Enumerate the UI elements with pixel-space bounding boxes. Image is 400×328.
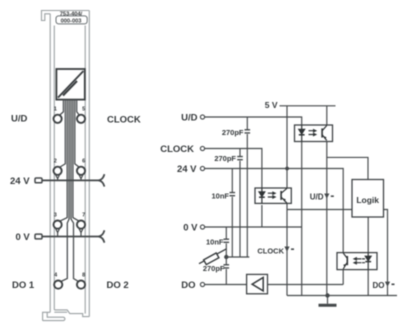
svg-text:5: 5 — [82, 107, 85, 113]
svg-text:Logik: Logik — [356, 195, 379, 205]
svg-text:0 V: 0 V — [16, 232, 31, 243]
svg-text:000-003: 000-003 — [61, 19, 82, 25]
svg-text:U/D: U/D — [11, 114, 28, 125]
svg-text:1: 1 — [54, 107, 57, 113]
svg-text:6: 6 — [82, 159, 85, 165]
svg-text:CLOCK: CLOCK — [107, 115, 141, 126]
svg-text:5 V: 5 V — [265, 100, 278, 110]
svg-text:270pF: 270pF — [222, 128, 244, 137]
svg-text:CLOCK: CLOCK — [257, 247, 284, 256]
svg-text:24 V: 24 V — [10, 176, 30, 187]
svg-text:10nF: 10nF — [211, 192, 229, 201]
svg-text:U/D: U/D — [310, 193, 324, 202]
svg-text:270pF: 270pF — [214, 154, 236, 163]
svg-text:U/D: U/D — [181, 113, 198, 124]
svg-text:270pF: 270pF — [203, 264, 225, 273]
svg-text:DO: DO — [181, 280, 195, 291]
svg-text:DO 1: DO 1 — [12, 280, 35, 291]
svg-text:4: 4 — [54, 272, 58, 278]
svg-text:DO 2: DO 2 — [107, 280, 129, 291]
svg-text:24 V: 24 V — [177, 164, 197, 175]
svg-text:3: 3 — [54, 212, 57, 218]
svg-text:0 V: 0 V — [183, 222, 198, 233]
svg-text:753-404/: 753-404/ — [60, 11, 83, 17]
svg-text:8: 8 — [82, 272, 85, 278]
svg-text:CLOCK: CLOCK — [160, 144, 194, 155]
svg-text:2: 2 — [54, 159, 57, 165]
svg-text:7: 7 — [82, 212, 85, 218]
svg-text:DO: DO — [373, 281, 385, 290]
svg-text:10nF: 10nF — [206, 238, 224, 247]
